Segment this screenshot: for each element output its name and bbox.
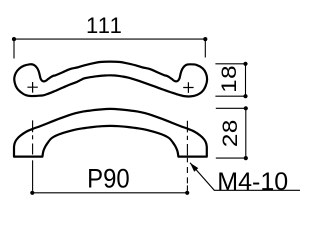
right screw centerline (dashed) — [186, 121, 188, 184]
screw cross right — [183, 82, 193, 93]
dim P90 line — [32, 192, 187, 194]
svg-text:18: 18 — [218, 65, 241, 93]
svg-text:M4-10: M4-10 — [217, 168, 288, 196]
screw cross left — [27, 82, 37, 93]
M4-10 arrowhead — [190, 163, 198, 172]
dim 18 line — [245, 64, 247, 96]
dim 18 extension lines — [215, 64, 247, 96]
dim 18 dots — [243, 62, 247, 66]
dim 111 right extension — [204, 39, 206, 57]
left screw centerline (dashed) — [32, 120, 34, 154]
svg-text:P90: P90 — [87, 164, 130, 194]
dim 111 left extension — [13, 39, 15, 58]
left extension line to P90 — [32, 160, 34, 191]
dim 28 dots — [244, 106, 248, 110]
svg-text:28: 28 — [218, 119, 241, 147]
dim 111 line — [14, 38, 205, 40]
dim 28 extension lines — [216, 108, 247, 158]
M4-10 leader line — [190, 163, 300, 191]
svg-text:111: 111 — [86, 13, 123, 38]
dim P90 dots — [30, 191, 34, 195]
right extension to P90 dot — [186, 185, 188, 190]
handle top view outline — [14, 62, 207, 97]
dim 111 dots — [12, 37, 16, 41]
dim 28 line — [245, 108, 247, 158]
handle front view outline — [14, 109, 207, 157]
